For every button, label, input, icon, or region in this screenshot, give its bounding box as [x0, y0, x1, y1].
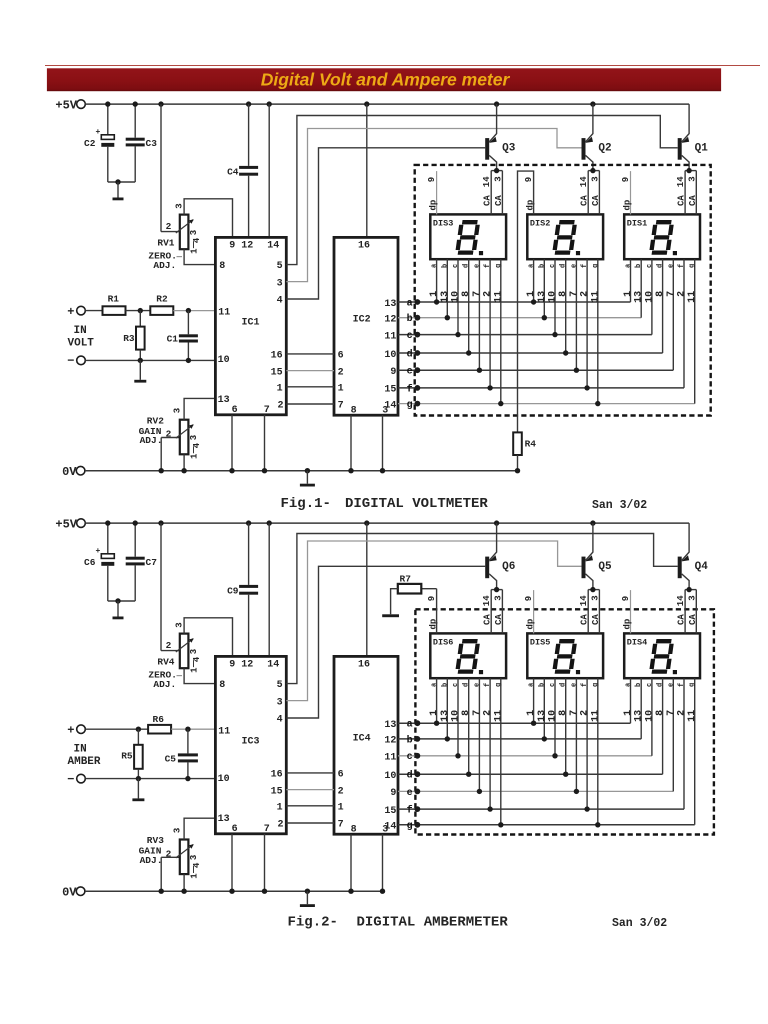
DIS1 segment pin a [630, 259, 632, 302]
svg-text:16: 16 [358, 660, 370, 671]
svg-text:f: f [581, 264, 589, 268]
0V terminal [76, 887, 85, 896]
node R3 bottom [138, 358, 143, 363]
svg-text:4: 4 [277, 715, 283, 726]
node C1 top [186, 308, 191, 313]
dashed display module box [415, 609, 714, 834]
svg-text:3: 3 [590, 595, 600, 600]
DIS3 segment pin d [468, 259, 470, 353]
svg-text:10: 10 [644, 291, 655, 303]
svg-text:9: 9 [524, 177, 534, 182]
svg-text:1: 1 [277, 803, 283, 814]
svg-text:3: 3 [493, 176, 503, 181]
svg-text:6: 6 [338, 770, 344, 781]
wire - input to pin 10 [85, 778, 215, 780]
svg-text:3: 3 [382, 406, 388, 417]
svg-text:c: c [549, 264, 557, 268]
svg-text:ADJ.: ADJ. [153, 260, 176, 271]
svg-text:7: 7 [666, 710, 677, 716]
+5V power terminal [77, 519, 86, 528]
capacitor C3 [134, 104, 136, 138]
svg-text:8: 8 [461, 710, 472, 716]
node DIS2 CA tie [590, 168, 595, 173]
svg-text:8: 8 [461, 291, 472, 297]
potentiometer RV1 (zero adj) [160, 104, 162, 232]
wire DIS2 dp to R4 [518, 171, 534, 432]
svg-text:DIS1: DIS1 [627, 218, 647, 228]
svg-text:15: 15 [384, 385, 396, 396]
svg-text:C6: C6 [84, 557, 96, 568]
svg-text:10: 10 [644, 710, 655, 722]
node bus c entry [415, 753, 421, 759]
svg-text:14: 14 [579, 176, 589, 187]
svg-text:ADJ.: ADJ. [153, 679, 176, 690]
svg-text:b: b [538, 264, 546, 268]
svg-text:7: 7 [666, 291, 677, 297]
svg-text:f: f [678, 264, 686, 268]
segment bus g [398, 403, 695, 405]
0V terminal [76, 466, 85, 475]
svg-text:b: b [407, 734, 413, 746]
svg-text:C2: C2 [84, 138, 96, 149]
node DIS4 CA tie [686, 587, 691, 592]
svg-text:b: b [441, 264, 449, 268]
svg-text:1: 1 [623, 291, 634, 297]
DIS1 segment pin b [640, 259, 642, 318]
svg-text:12: 12 [241, 660, 253, 671]
wire pin5 to Q4 base [286, 534, 677, 684]
node DIS6 CA tie [494, 587, 499, 592]
svg-text:IC4: IC4 [353, 733, 371, 744]
svg-text:14: 14 [267, 241, 279, 252]
driver IC2 [334, 237, 398, 415]
DIS5 dp pin (n.c.) [533, 590, 535, 633]
svg-text:g: g [495, 264, 503, 268]
svg-text:dp: dp [623, 200, 633, 211]
segment bus a [398, 722, 631, 724]
DIS2 segment pin e [575, 259, 577, 370]
svg-text:C7: C7 [146, 557, 158, 568]
node DIS1 CA tie [686, 168, 691, 173]
svg-text:f: f [678, 683, 686, 687]
input - terminal [77, 774, 86, 783]
segment bus e [398, 369, 673, 371]
svg-text:14: 14 [579, 595, 589, 606]
svg-text:g: g [495, 683, 503, 687]
wire +5V to pin 16 [366, 523, 368, 656]
svg-text:16: 16 [358, 241, 370, 252]
capacitor C4 [248, 104, 250, 166]
svg-text:e: e [473, 683, 481, 687]
node C5 top [185, 727, 190, 732]
node bus c entry [415, 332, 421, 338]
svg-text:3: 3 [382, 825, 388, 836]
svg-text:Q3: Q3 [502, 143, 516, 155]
DIS4 dp pin (n.c.) [630, 590, 632, 633]
wire - input to pin 10 [85, 359, 215, 361]
svg-text:12: 12 [384, 736, 396, 747]
DIS6 segment pin e [478, 678, 480, 791]
svg-text:d: d [657, 264, 665, 268]
segment bus f [398, 808, 684, 810]
svg-text:1: 1 [338, 384, 344, 395]
DIS6 segment pin g [500, 678, 502, 825]
svg-text:10: 10 [384, 771, 396, 782]
DIS4 segment pin c [651, 678, 653, 756]
segment bus c [398, 755, 652, 757]
capacitor C6 (electrolytic) [107, 523, 109, 554]
svg-text:15: 15 [271, 786, 283, 797]
svg-text:7: 7 [569, 710, 580, 716]
svg-text:11: 11 [687, 710, 698, 722]
svg-text:1: 1 [429, 291, 440, 297]
wire RV2 pin1 to 0V [183, 454, 185, 470]
DIS2 segment pin b [543, 259, 545, 318]
capacitor C2 (electrolytic) [107, 104, 109, 135]
DIS3 segment pin f [489, 259, 491, 388]
svg-text:f: f [407, 805, 413, 817]
wire R6 to pin 11 [171, 728, 215, 730]
svg-text:IN: IN [74, 325, 87, 337]
svg-text:a: a [431, 682, 439, 687]
ground (input) [137, 779, 139, 799]
7-segment display DIS1 [624, 214, 700, 259]
svg-text:10: 10 [218, 355, 230, 366]
transistor Q2 [582, 138, 586, 160]
segment bus e [398, 790, 673, 792]
wire DIS6 dp to R7 [436, 589, 438, 634]
DIS5 CA pins [587, 590, 589, 634]
wire joining decoupling caps [108, 181, 135, 183]
DIS4 CA pins [684, 590, 686, 634]
resistor R2 [150, 306, 173, 315]
segment bus a [398, 301, 631, 303]
svg-text:R6: R6 [153, 714, 165, 725]
DIS6 segment pin d [468, 678, 470, 774]
svg-text:DIGITAL VOLTMETER: DIGITAL VOLTMETER [345, 496, 488, 512]
ground (decoupling) [117, 601, 119, 617]
svg-text:2: 2 [483, 291, 494, 297]
svg-text:1: 1 [190, 453, 200, 459]
svg-text:DIS4: DIS4 [627, 637, 647, 647]
svg-text:4: 4 [277, 296, 283, 307]
wire + input to node [85, 728, 148, 730]
node DIS3 CA tie [494, 168, 499, 173]
wire RV3 pin3 to pin 13 [184, 818, 215, 839]
svg-text:10: 10 [548, 291, 559, 303]
svg-text:dp: dp [526, 619, 536, 630]
wire pin5 to Q1 base [286, 116, 677, 265]
node bus e entry [415, 789, 421, 795]
node bus f entry [415, 385, 421, 391]
node bus a entry [415, 299, 421, 305]
capacitor C7 [134, 523, 136, 557]
DIS6 CA pins [490, 590, 492, 634]
svg-text:a: a [528, 682, 536, 687]
potentiometer RV4 (zero adj) [160, 523, 162, 651]
svg-text:3: 3 [189, 435, 199, 440]
svg-text:15: 15 [271, 367, 283, 378]
DIS1 segment pin e [672, 259, 674, 370]
wire pin2-pin7 [286, 403, 334, 405]
DIS2 segment pin f [586, 259, 588, 388]
svg-text:d: d [560, 264, 568, 268]
svg-text:8: 8 [655, 710, 666, 716]
svg-text:13: 13 [218, 395, 230, 406]
svg-text:g: g [592, 264, 600, 268]
capacitor C9 [248, 523, 250, 585]
svg-text:3: 3 [277, 697, 283, 708]
svg-text:RV3: RV3 [147, 835, 164, 846]
svg-text:8: 8 [558, 291, 569, 297]
svg-text:IC3: IC3 [242, 736, 260, 747]
svg-text:CA: CA [580, 195, 590, 206]
svg-text:CA: CA [580, 614, 590, 625]
DIS3 segment pin e [478, 259, 480, 370]
DIS4 segment pin b [640, 678, 642, 739]
svg-text:ADJ.: ADJ. [140, 435, 163, 446]
svg-text:13: 13 [384, 720, 396, 731]
svg-text:14: 14 [676, 595, 686, 606]
wire RV1 pin3 to pin 9 [184, 199, 232, 238]
svg-text:e: e [667, 264, 675, 268]
svg-text:CA: CA [494, 195, 504, 206]
wire R4 to 0V [517, 455, 519, 471]
svg-text:g: g [689, 264, 697, 268]
svg-text:c: c [452, 264, 460, 268]
wire + input to R1 [85, 310, 102, 312]
7-segment display DIS3 [430, 214, 506, 259]
svg-text:AMBER: AMBER [68, 756, 101, 768]
svg-text:a: a [625, 263, 633, 268]
svg-text:13: 13 [537, 710, 548, 722]
svg-text:11: 11 [384, 753, 396, 764]
svg-text:b: b [407, 313, 413, 325]
svg-text:11: 11 [218, 726, 230, 737]
wire RV3 pin1 to 0V [183, 874, 185, 891]
svg-text:RV4: RV4 [157, 657, 174, 668]
resistor R7 [398, 584, 422, 594]
svg-text:11: 11 [687, 291, 698, 303]
svg-text:e: e [570, 683, 578, 687]
wire RV4 pin1 to pin 8 [184, 668, 215, 683]
svg-text:c: c [407, 331, 413, 342]
svg-text:CA: CA [483, 195, 493, 206]
wire +5V to pin 14 [268, 104, 270, 237]
svg-text:2: 2 [277, 820, 283, 831]
svg-text:Q4: Q4 [695, 561, 709, 573]
svg-text:CA: CA [677, 614, 687, 625]
svg-text:RV1: RV1 [157, 238, 174, 249]
DIS1 segment pin g [694, 259, 696, 403]
resistor R1 [103, 306, 126, 315]
svg-text:g: g [592, 683, 600, 687]
DIS2 segment pin a [533, 259, 535, 302]
svg-text:9: 9 [427, 177, 437, 182]
svg-text:f: f [581, 683, 589, 687]
svg-text:5: 5 [277, 261, 283, 272]
DIS1 segment pin d [662, 259, 664, 353]
DIS4 segment pin a [630, 678, 632, 723]
DIS1 segment pin f [683, 259, 685, 388]
input + terminal [77, 306, 86, 315]
svg-text:a: a [407, 298, 413, 309]
svg-text:CA: CA [677, 195, 687, 206]
svg-text:3: 3 [590, 176, 600, 181]
7-segment display DIS4 [624, 633, 700, 678]
svg-text:0V: 0V [62, 465, 77, 479]
svg-text:13: 13 [218, 814, 230, 825]
IC bottom stubs to 0V [231, 834, 233, 891]
svg-text:g: g [407, 821, 413, 832]
svg-text:14: 14 [676, 176, 686, 187]
DIS5 segment pin d [565, 678, 567, 774]
rail junction dots [105, 520, 110, 525]
resistor R5 [137, 729, 139, 745]
wire R1-R2 [126, 310, 151, 312]
svg-text:IN: IN [74, 744, 87, 756]
wire pin16-pin6 [286, 772, 334, 774]
svg-text:13: 13 [440, 710, 451, 722]
wire pin3 to Q5 base [286, 541, 581, 701]
wire RV2 pin3 to pin 13 [184, 398, 215, 419]
svg-text:13: 13 [384, 299, 396, 310]
svg-text:3: 3 [687, 595, 697, 600]
svg-text:15: 15 [384, 806, 396, 817]
svg-text:10: 10 [548, 710, 559, 722]
DIS1 segment pin c [651, 259, 653, 334]
0V rail wire [85, 890, 383, 892]
svg-text:DIS5: DIS5 [530, 637, 550, 647]
svg-text:e: e [473, 264, 481, 268]
svg-text:7: 7 [264, 824, 270, 835]
7-segment display DIS2 [527, 214, 603, 259]
thin red rule above banner [45, 65, 760, 67]
wire pin2-pin7 [286, 822, 334, 824]
DIS6 segment pin f [489, 678, 491, 809]
svg-text:R3: R3 [123, 333, 135, 344]
svg-text:6: 6 [338, 351, 344, 362]
svg-text:San 3/02: San 3/02 [592, 499, 647, 512]
node bus d entry [415, 350, 421, 356]
svg-text:3: 3 [174, 622, 184, 627]
+5V power terminal [77, 100, 86, 109]
svg-text:DIS2: DIS2 [530, 218, 550, 228]
junction [115, 598, 120, 603]
wire +5V to pin 14 [268, 523, 270, 656]
wire R2 to pin 11 [173, 310, 215, 312]
svg-text:R1: R1 [108, 294, 120, 305]
wire pin15-pin2 [286, 789, 334, 791]
node R1/R2/R3 [138, 308, 143, 313]
svg-text:RV2: RV2 [147, 415, 164, 426]
potentiometer RV2 (gain adj) [160, 438, 162, 471]
wire pin3 to Q2 base [286, 129, 581, 282]
svg-text:f: f [407, 383, 413, 395]
svg-text:e: e [667, 683, 675, 687]
DIS5 segment pin e [575, 678, 577, 791]
IC bottom stubs to 0V [231, 415, 233, 471]
svg-text:a: a [407, 720, 413, 731]
ground (input) [139, 360, 141, 379]
svg-text:DIS3: DIS3 [433, 218, 453, 228]
svg-text:3: 3 [189, 855, 199, 860]
svg-text:5: 5 [277, 680, 283, 691]
svg-text:a: a [625, 682, 633, 687]
wire pin4 to Q3 base [286, 148, 485, 299]
svg-text:3: 3 [189, 649, 199, 654]
svg-text:7: 7 [338, 401, 344, 412]
DIS1 dp pin (n.c.) [630, 171, 632, 214]
DIS3 segment pin a [436, 259, 438, 302]
svg-text:2: 2 [483, 710, 494, 716]
svg-text:d: d [407, 348, 413, 360]
wire joining decoupling caps [108, 600, 135, 602]
node bus e entry [415, 367, 421, 373]
svg-text:CA: CA [591, 614, 601, 625]
svg-text:b: b [635, 264, 643, 268]
svg-text:7: 7 [569, 291, 580, 297]
svg-text:8: 8 [351, 825, 357, 836]
svg-text:3: 3 [493, 595, 503, 600]
svg-text:e: e [407, 788, 413, 799]
DIS4 segment pin f [683, 678, 685, 809]
svg-text:CA: CA [688, 614, 698, 625]
DIS6 segment pin a [436, 678, 438, 723]
ground (0V rail) [306, 471, 308, 484]
0V rail junction dots [159, 468, 164, 473]
DIS3 dp pin (n.c.) [436, 171, 438, 214]
svg-text:9: 9 [390, 367, 396, 378]
svg-text:Q1: Q1 [695, 143, 709, 155]
resistor R3 [139, 311, 141, 327]
svg-text:c: c [646, 264, 654, 268]
svg-text:f: f [484, 264, 492, 268]
wire RV4 pin3 to pin 9 [184, 618, 232, 657]
svg-text:d: d [463, 683, 471, 687]
svg-text:CA: CA [494, 614, 504, 625]
DIS4 segment pin d [662, 678, 664, 774]
transistor Q3 [485, 138, 489, 160]
transistor Q4 [678, 557, 682, 579]
svg-text:Fig.1-: Fig.1- [281, 496, 331, 512]
svg-text:11: 11 [493, 710, 504, 722]
svg-text:14: 14 [482, 176, 492, 187]
transistor Q1 [678, 138, 682, 160]
transistor Q5 [582, 557, 586, 579]
DIS6 segment pin b [446, 678, 448, 739]
input - terminal [77, 356, 86, 365]
0V rail junction dots [159, 889, 164, 894]
svg-text:f: f [484, 683, 492, 687]
svg-text:16: 16 [271, 351, 283, 362]
svg-text:3: 3 [173, 408, 183, 413]
svg-text:d: d [407, 770, 413, 782]
svg-text:IC1: IC1 [242, 317, 260, 328]
svg-text:13: 13 [537, 291, 548, 303]
svg-text:b: b [441, 683, 449, 687]
svg-text:g: g [689, 683, 697, 687]
svg-text:3: 3 [189, 230, 199, 235]
segment bus c [398, 334, 652, 336]
svg-text:11: 11 [590, 291, 601, 303]
svg-text:CA: CA [483, 614, 493, 625]
svg-text:R5: R5 [121, 751, 133, 762]
svg-text:IC2: IC2 [353, 314, 371, 325]
svg-text:b: b [635, 683, 643, 687]
svg-text:8: 8 [219, 680, 225, 691]
svg-text:c: c [646, 683, 654, 687]
